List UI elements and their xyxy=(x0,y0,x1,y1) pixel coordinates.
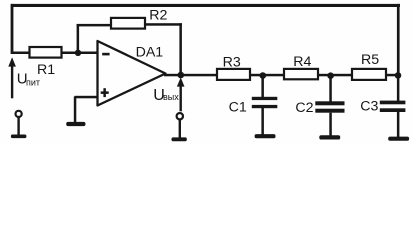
ground below C1 xyxy=(255,134,276,138)
wire non-inverting input row xyxy=(75,96,98,99)
ground bar at + input xyxy=(66,122,85,126)
resistor R5 xyxy=(352,52,386,80)
node A: op-amp output junction xyxy=(178,72,185,79)
capacitor C1 xyxy=(252,76,277,135)
arrow Uvyh (output voltage) xyxy=(177,77,185,111)
svg-text:R4: R4 xyxy=(293,54,311,70)
svg-text:R1: R1 xyxy=(37,62,55,78)
wire top feedback rail xyxy=(11,4,400,7)
arrow Upit (supply voltage) xyxy=(8,57,16,98)
svg-text:C1: C1 xyxy=(229,100,247,116)
label Uvyh xyxy=(153,87,179,104)
terminal Uvyh (output pin) xyxy=(172,113,187,141)
wire R2 branch vertical down to output node xyxy=(179,23,182,75)
minus sign at inverting input xyxy=(102,53,109,56)
svg-text:вых: вых xyxy=(163,92,179,102)
svg-text:R2: R2 xyxy=(149,8,167,24)
capacitor C2 xyxy=(315,76,344,137)
svg-text:DA1: DA1 xyxy=(136,44,164,60)
label Upit xyxy=(17,71,40,88)
wire right vertical from top rail to node D xyxy=(397,4,400,76)
terminal Upit (supply pin) xyxy=(11,111,27,138)
ground below C2 xyxy=(319,135,340,139)
resistor R2 xyxy=(111,8,168,29)
wire output / RC-ladder row xyxy=(164,74,399,77)
wire left vertical from top rail to R1 row xyxy=(11,4,14,54)
node C: R4/R5/C2 junction xyxy=(327,72,334,79)
plus sign at non-inverting input xyxy=(101,91,109,94)
resistor R3 xyxy=(217,54,250,80)
capacitor C3 xyxy=(380,76,406,138)
wire inverting-input row (left rail to op-amp) xyxy=(12,52,98,55)
wire + input ground vertical xyxy=(74,97,77,123)
svg-text:C3: C3 xyxy=(360,99,378,115)
resistor R1 xyxy=(30,47,62,78)
wire R2 branch vertical up from R1 junction xyxy=(77,25,80,54)
svg-text:R5: R5 xyxy=(361,52,379,68)
node: junction R1 / R2 / inverting input xyxy=(75,50,81,56)
op-amp DA1 triangle xyxy=(98,41,166,106)
svg-text:R3: R3 xyxy=(223,54,241,70)
resistor R4 xyxy=(284,54,318,79)
svg-text:пит: пит xyxy=(26,77,40,87)
ground below C3 xyxy=(388,137,409,141)
wire R2 branch horizontal into R2 xyxy=(77,24,112,27)
svg-text:C2: C2 xyxy=(295,100,313,116)
node D: R5/C3/feedback junction xyxy=(395,72,402,79)
wire R2 output side horizontal xyxy=(145,23,182,26)
node B: R3/R4/C1 junction xyxy=(260,72,267,79)
